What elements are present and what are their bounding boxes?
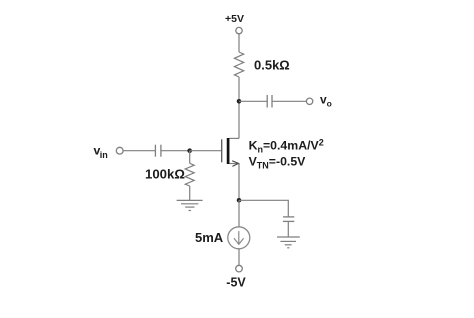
vo output terminal (306, 98, 312, 104)
wire: resistor RD to drain (through drain node) (238, 77, 240, 138)
svg-text:100kΩ: 100kΩ (145, 167, 185, 182)
n-channel MOSFET M1 (222, 138, 239, 166)
svg-text:+5V: +5V (225, 13, 244, 25)
wire: bypass capacitor to ground (287, 221, 289, 237)
input coupling capacitor (155, 145, 161, 157)
wire: input capacitor to gate node (161, 150, 190, 152)
resistor RD 0.5k (234, 52, 243, 77)
wire: +5V terminal to resistor RD (238, 34, 240, 52)
ground (bypass) (277, 237, 300, 248)
wire: source node to bypass capacitor (239, 200, 288, 217)
current source 5mA (228, 227, 250, 249)
wire: drain node to output capacitor (239, 100, 267, 102)
wire: resistor RG to ground (189, 186, 191, 200)
-5V supply terminal (236, 265, 243, 272)
wire: gate node to MOSFET gate (190, 150, 222, 152)
wire: gate node down to resistor RG (189, 151, 191, 164)
wire: MOSFET source to source node (238, 164, 240, 201)
drain node (237, 99, 242, 104)
output coupling capacitor (267, 95, 272, 108)
svg-text:in: in (100, 150, 108, 160)
bypass capacitor (283, 217, 294, 222)
vin input terminal (116, 147, 123, 154)
source node (237, 198, 242, 203)
wire: source node to current source (238, 200, 240, 227)
svg-text:o: o (327, 98, 332, 108)
svg-text:0.5kΩ: 0.5kΩ (254, 58, 290, 73)
svg-text:5mA: 5mA (195, 230, 224, 245)
wire: vin terminal to input capacitor (123, 150, 155, 152)
+5V supply terminal (236, 27, 242, 33)
resistor RG 100k (185, 163, 194, 186)
wire: output capacitor to vo terminal (272, 100, 306, 102)
svg-text:-5V: -5V (226, 276, 246, 290)
ground (RG) (177, 200, 203, 210)
wire: current source to -5V terminal (238, 249, 240, 265)
gate node (187, 148, 192, 153)
